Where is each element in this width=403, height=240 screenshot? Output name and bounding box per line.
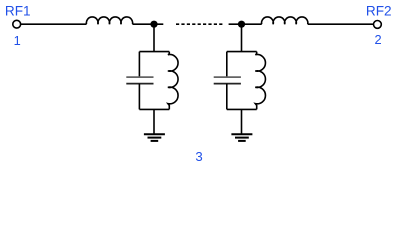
- dashed continuation wire: [176, 23, 223, 25]
- inductor L4 (shunt tank 2, 3 loops): [255, 52, 265, 110]
- tank 1 bottom wire: [139, 108, 169, 110]
- wire tank 1 to ground: [153, 109, 155, 134]
- wire tank 2 to ground: [241, 109, 243, 134]
- node label 3: [195, 149, 202, 164]
- wire node B down to tank 2: [241, 24, 243, 51]
- wire into node B and to L2: [229, 23, 262, 25]
- svg-text:3: 3: [195, 149, 202, 164]
- svg-text:RF2: RF2: [366, 4, 392, 19]
- svg-text:2: 2: [375, 32, 382, 47]
- wire from P1 to L1: [21, 23, 87, 25]
- inductor L2 (series, 4 humps): [262, 17, 308, 24]
- capacitor C1 (shunt tank 1): [126, 77, 153, 84]
- wire from L1 past node A: [133, 23, 164, 25]
- tank 2 top wire: [227, 51, 257, 53]
- wire tank2 left branch upper: [226, 52, 228, 77]
- tank 2 bottom wire: [227, 108, 257, 110]
- wire tank1 left branch upper: [138, 52, 140, 77]
- tank 1 top wire: [139, 51, 169, 53]
- wire tank2 left branch lower: [226, 84, 228, 110]
- ground GND1: [144, 134, 165, 141]
- pin number 1: [14, 33, 21, 48]
- ground GND2: [231, 134, 252, 141]
- port P1 terminal circle: [13, 20, 21, 28]
- node A junction dot: [150, 21, 157, 28]
- port P2 terminal circle: [374, 21, 382, 29]
- node B junction dot: [238, 21, 245, 28]
- wire from L2 to P2: [308, 23, 374, 25]
- inductor L3 (shunt tank 1, 3 loops): [168, 52, 178, 110]
- svg-text:RF1: RF1: [5, 4, 31, 19]
- wire tank1 left branch lower: [138, 84, 140, 110]
- svg-text:1: 1: [14, 33, 21, 48]
- inductor L1 (series, 4 humps): [86, 17, 132, 24]
- port P2 label RF2: [366, 4, 392, 19]
- capacitor C2 (shunt tank 2): [214, 77, 241, 84]
- port P1 label RF1: [5, 4, 31, 19]
- wire node A down to tank 1: [153, 24, 155, 51]
- pin number 2: [375, 32, 382, 47]
